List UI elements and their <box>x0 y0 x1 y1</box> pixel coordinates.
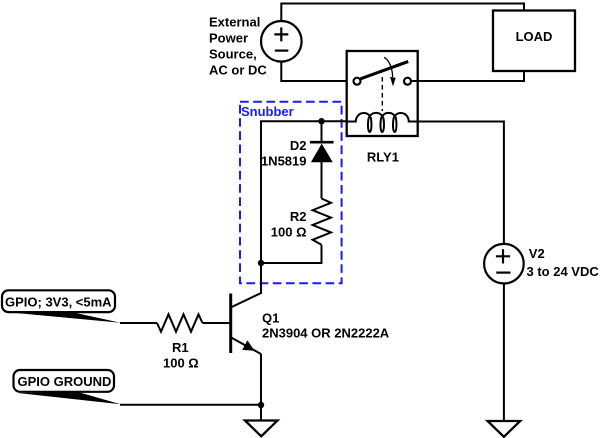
wire: GPIO GROUND to junction <box>120 404 261 406</box>
node: junction dot top of diode <box>318 118 324 124</box>
relay coil <box>347 113 418 132</box>
power source minus sign <box>275 49 289 51</box>
relay switch right pin <box>404 78 411 85</box>
transistor Q1 emitter <box>231 337 261 354</box>
wire: relay coil right to V2 top <box>418 122 504 245</box>
GPIO input flag box <box>2 290 115 312</box>
GPIO input flag pennant <box>8 312 121 323</box>
relay actuation arrow <box>384 57 393 77</box>
svg-text:Source,: Source, <box>209 47 257 62</box>
wire: V2 bottom to ground <box>503 283 505 421</box>
wire: power source bottom to relay switch left terminal <box>281 62 354 81</box>
wire: relay switch right terminal to LOAD bottom <box>411 71 524 81</box>
transistor Q1 base bar <box>229 294 232 354</box>
V2 source circle <box>484 244 524 284</box>
wire: emitter down to ground rail <box>260 354 262 405</box>
relay RLY1 box <box>347 51 418 136</box>
V2 plus sign <box>496 249 510 263</box>
ground under V2 <box>488 421 521 437</box>
svg-text:2N3904 OR 2N2222A: 2N3904 OR 2N2222A <box>262 326 390 341</box>
node: junction dot snubber bottom left <box>258 260 264 266</box>
svg-text:Power: Power <box>209 31 248 46</box>
diode D2 <box>310 141 334 144</box>
relay switch blade <box>361 62 409 79</box>
resistor R2 <box>313 199 331 245</box>
svg-text:External: External <box>209 15 260 30</box>
power source V1 circle <box>261 21 302 62</box>
snubber dashed box <box>240 102 342 283</box>
svg-text:GPIO GROUND: GPIO GROUND <box>18 374 112 389</box>
svg-text:D2: D2 <box>290 138 307 153</box>
svg-text:R1: R1 <box>172 340 189 355</box>
svg-text:LOAD: LOAD <box>516 29 553 44</box>
wire top: power source top to LOAD top <box>281 4 524 22</box>
wire: dot to ground symbol <box>260 405 262 420</box>
GPIO GROUND flag pennant <box>18 392 121 404</box>
wire: snubber top <box>261 121 347 263</box>
LOAD box <box>493 11 575 72</box>
svg-text:1N5819: 1N5819 <box>261 154 307 169</box>
svg-text:V2: V2 <box>529 246 545 261</box>
wire: snubber to Q1 collector <box>231 263 261 308</box>
svg-text:Snubber: Snubber <box>241 104 294 119</box>
svg-text:Q1: Q1 <box>262 311 279 326</box>
svg-text:3 to 24 VDC: 3 to 24 VDC <box>527 264 600 279</box>
node: junction dot at ground rail <box>258 402 264 408</box>
relay switch left pin <box>354 78 361 85</box>
power source plus sign <box>274 27 288 41</box>
wire: diode top stub <box>321 121 323 142</box>
resistor R1 <box>157 314 203 331</box>
relay dashed link <box>381 77 383 111</box>
wire: R1 to GPIO flag <box>120 322 157 324</box>
svg-text:100 Ω: 100 Ω <box>271 225 307 240</box>
svg-text:100 Ω: 100 Ω <box>163 356 199 371</box>
wire: R2 bottom to snubber bottom rail <box>261 245 322 263</box>
GPIO GROUND flag box <box>14 370 115 392</box>
svg-text:RLY1: RLY1 <box>367 149 399 164</box>
wire: diode to R2 <box>321 162 323 199</box>
wire: base to R1 <box>203 322 230 324</box>
svg-text:AC or DC: AC or DC <box>209 63 267 78</box>
svg-text:R2: R2 <box>290 209 307 224</box>
svg-text:GPIO; 3V3, <5mA: GPIO; 3V3, <5mA <box>5 295 112 310</box>
ground under Q1 <box>245 421 278 437</box>
V2 minus sign <box>496 272 510 274</box>
